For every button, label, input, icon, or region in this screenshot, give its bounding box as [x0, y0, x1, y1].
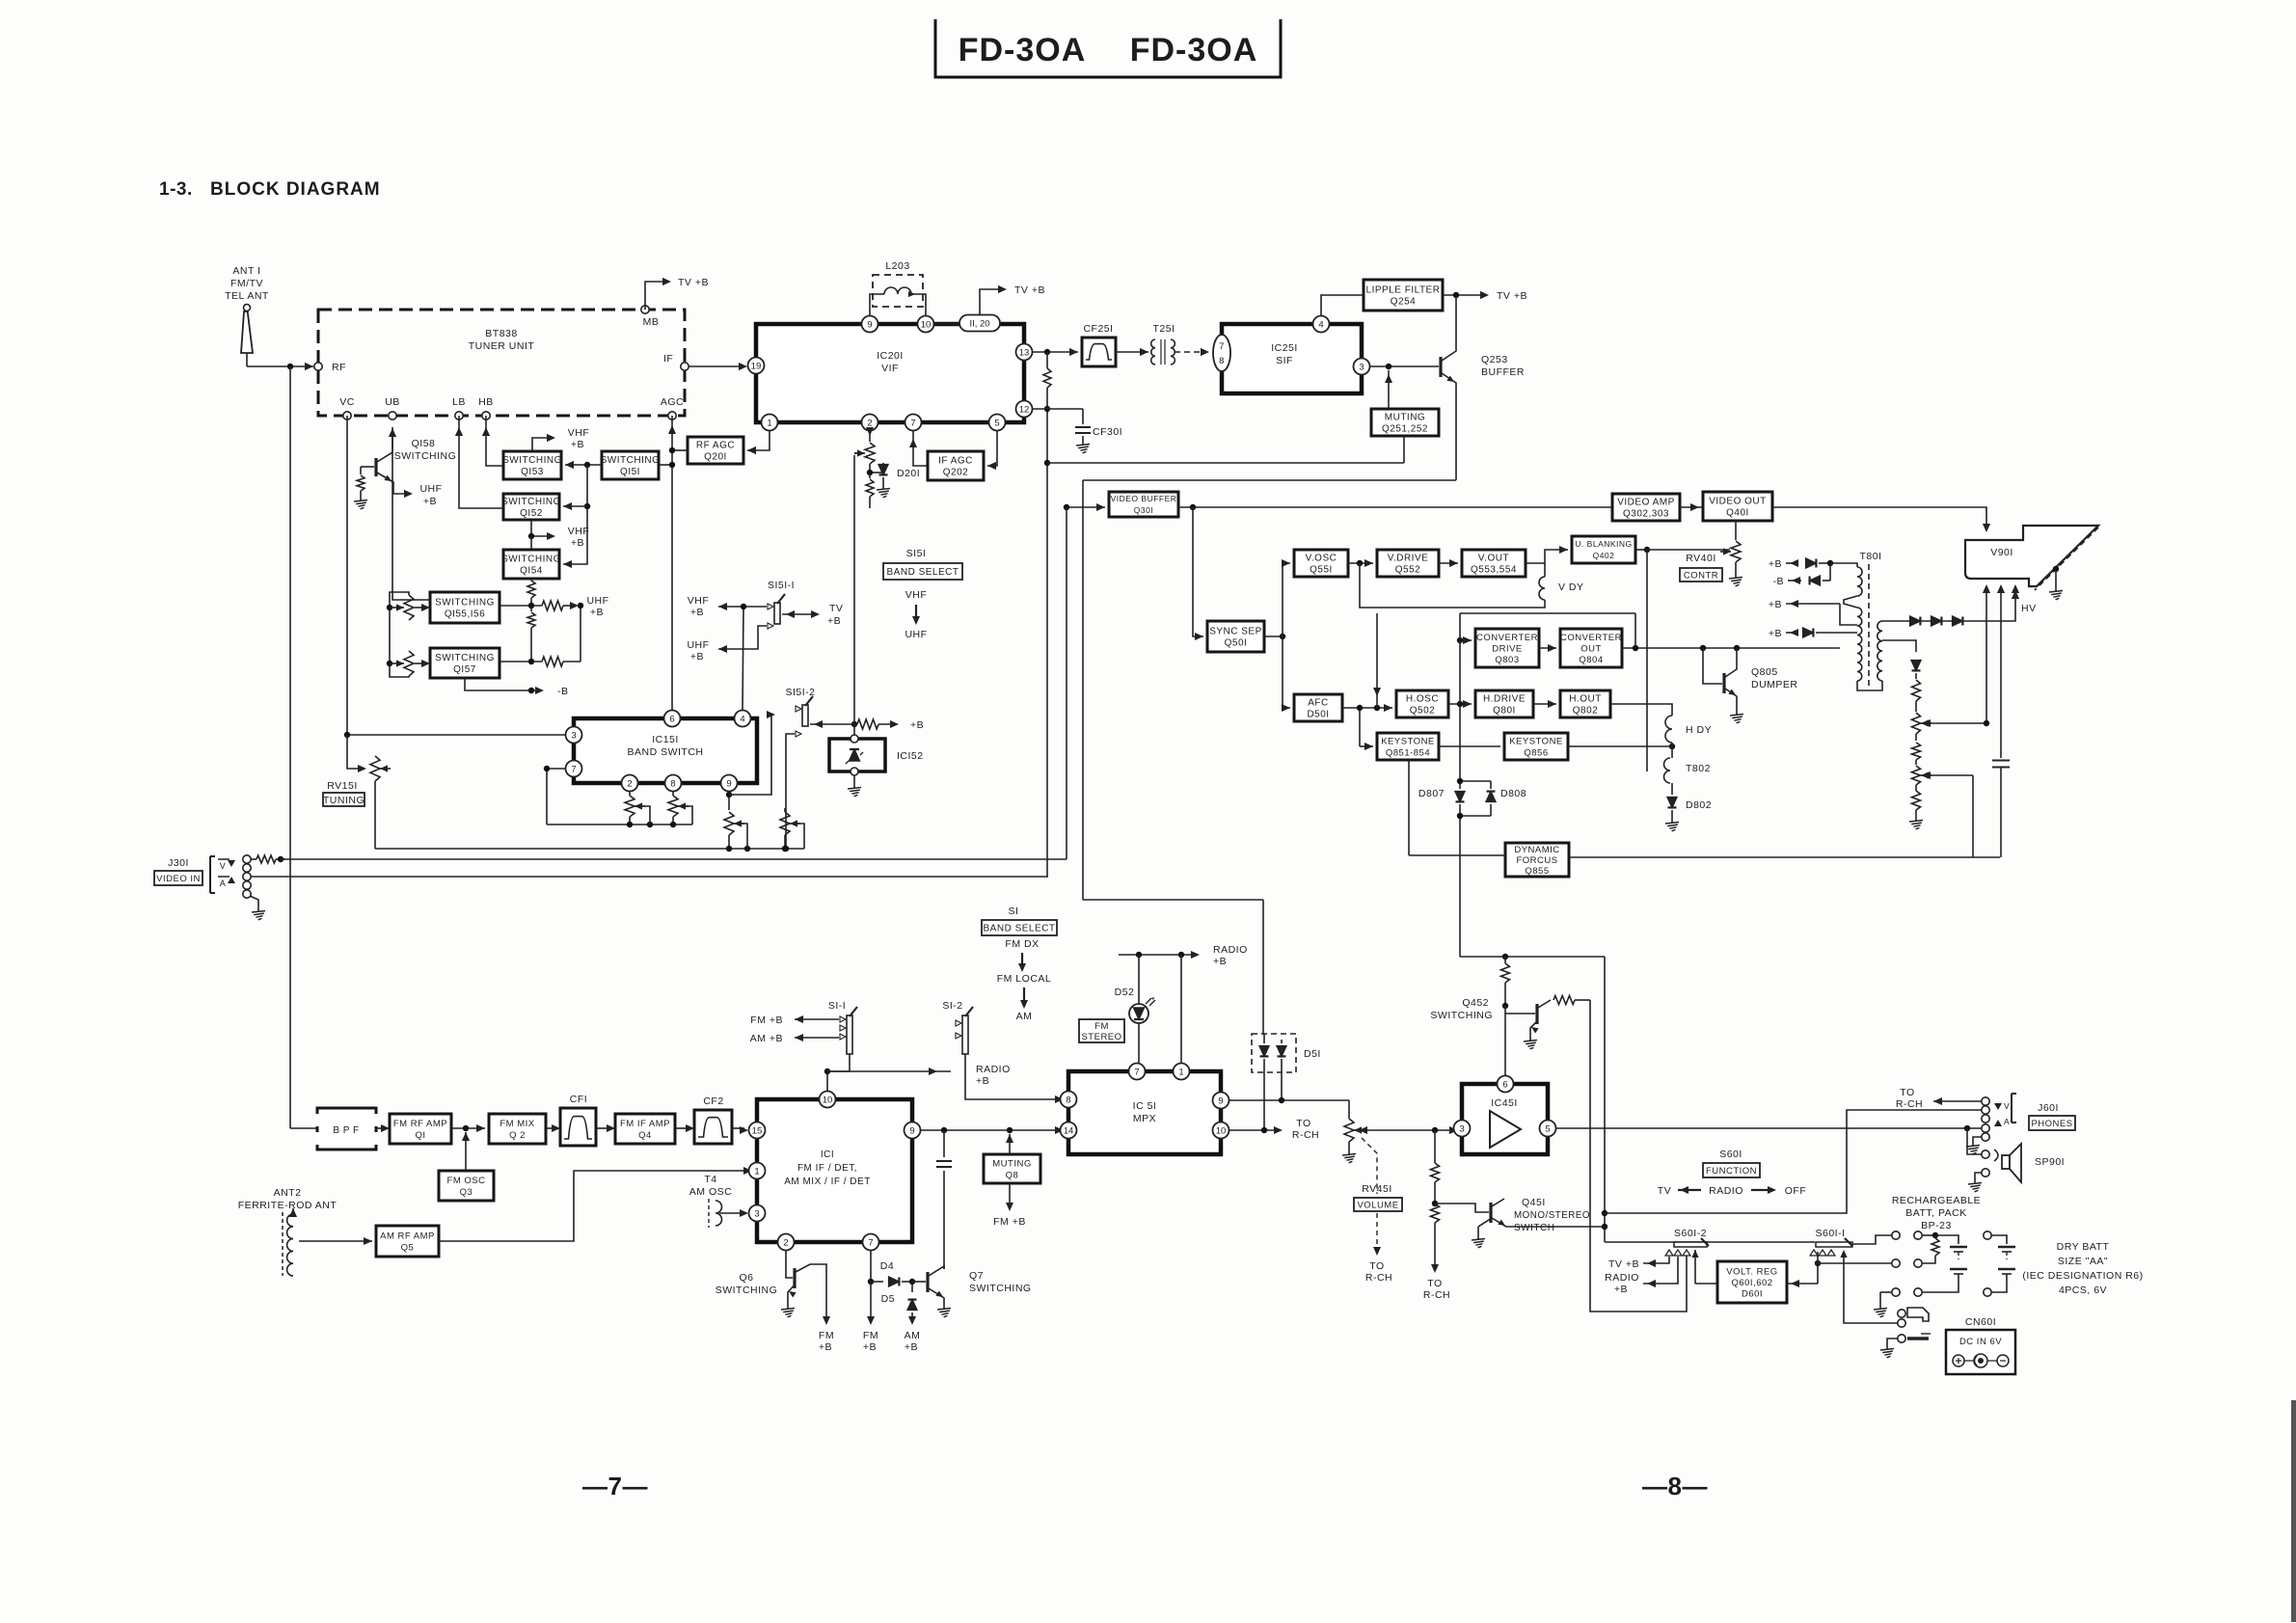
op-amp IC1 box — [757, 1099, 912, 1242]
wire J301 gnd lead — [250, 896, 258, 906]
svg-text:FD-3OA: FD-3OA — [1130, 32, 1258, 68]
ground IC152 — [848, 775, 861, 797]
svg-text:+B: +B — [571, 537, 584, 549]
transistor Q253 buffer — [1370, 295, 1456, 480]
switch S1-2 — [942, 1000, 973, 1054]
speaker SP901 — [1982, 1144, 2065, 1182]
wire pin1 to RFAGC — [747, 431, 770, 454]
diode D808 — [1486, 781, 1526, 816]
svg-text:8: 8 — [670, 778, 675, 789]
svg-text:RADIO: RADIO — [1709, 1185, 1743, 1197]
svg-text:V90I: V90I — [1990, 547, 2013, 558]
svg-text:SWITCHING: SWITCHING — [501, 555, 561, 565]
svg-text:SP90I: SP90I — [2035, 1156, 2065, 1168]
wire DC gnd — [1887, 1339, 1898, 1344]
pot RV401 contrast — [1693, 521, 1741, 573]
svg-text:6: 6 — [1502, 1079, 1507, 1090]
ground D802 — [1665, 818, 1679, 831]
wire video amp to out — [1680, 503, 1703, 511]
wire Q452 node — [1460, 954, 1605, 960]
wire LB to Q152 — [455, 416, 503, 508]
svg-text:FD-3OA: FD-3OA — [959, 32, 1087, 68]
pin IC51-1 — [1174, 1064, 1190, 1080]
svg-text:SWITCHING: SWITCHING — [394, 450, 457, 462]
svg-text:IC20I: IC20I — [877, 350, 904, 362]
svg-text:FM/TV: FM/TV — [230, 278, 263, 289]
wire J301 video up — [1066, 507, 1067, 859]
svg-text:SWITCHING: SWITCHING — [435, 598, 495, 609]
svg-text:SI5I-I: SI5I-I — [768, 580, 795, 591]
pin IC201-5 — [989, 415, 1006, 431]
label FM STEREO box — [1079, 1019, 1124, 1042]
pin MB — [641, 306, 660, 328]
svg-text:DC IN 6V: DC IN 6V — [1959, 1337, 2002, 1347]
svg-text:Q40I: Q40I — [1726, 508, 1749, 519]
label FUNCTION box — [1703, 1163, 1760, 1177]
connector J601 contacts — [1982, 1097, 1989, 1141]
wire 480 run — [1047, 462, 1404, 464]
pin IC201-19 — [748, 358, 765, 374]
wire Q1 to Q2 — [451, 1124, 485, 1132]
wire to V.OSC — [1282, 559, 1290, 636]
pot below IC151 pin2 — [625, 792, 645, 825]
capacitor CF301 — [1075, 409, 1122, 440]
svg-text:Q5: Q5 — [401, 1242, 415, 1253]
wire to S601-1 bar — [1605, 1241, 1815, 1243]
wire S151-2 lower contact — [783, 734, 795, 852]
S1 AM — [1016, 1011, 1033, 1022]
pin IC1-10 — [820, 1092, 836, 1108]
wire to sync sep — [1193, 507, 1203, 640]
CRT V901 — [1965, 526, 2098, 590]
svg-text:7: 7 — [868, 1237, 873, 1248]
svg-text:VIF: VIF — [881, 363, 899, 374]
svg-text:FM +B: FM +B — [750, 1014, 783, 1026]
svg-text:QI52: QI52 — [520, 508, 543, 519]
wire Q152 to Q154 — [530, 536, 532, 550]
box switching Q153 — [502, 451, 562, 479]
svg-text:9: 9 — [726, 778, 731, 789]
resistor HV chain3 — [1912, 785, 1921, 816]
pin IC151-8 — [665, 775, 682, 792]
wire pin5 to IFAGC — [987, 431, 997, 470]
svg-text:+B: +B — [976, 1075, 989, 1087]
box VOLT REG — [1717, 1261, 1787, 1303]
wire Q157 -B — [465, 678, 569, 697]
svg-text:TO: TO — [1900, 1087, 1914, 1098]
wire Q3 to node — [462, 1132, 470, 1171]
resistor +B node — [857, 719, 924, 731]
svg-text:+B: +B — [1614, 1284, 1628, 1295]
wire VHF+B to S151-1 — [718, 603, 767, 610]
battery cell D1 — [1991, 1235, 2015, 1259]
svg-text:3: 3 — [571, 730, 576, 741]
Q7 label — [969, 1270, 1032, 1294]
ground CF301 — [1076, 440, 1090, 453]
pot HV chain1 — [1912, 713, 1990, 734]
svg-text:6: 6 — [669, 714, 674, 724]
battery cell D2 — [1991, 1269, 2015, 1292]
svg-text:FORCUS: FORCUS — [1516, 855, 1557, 866]
wire hosc hdrive — [1448, 700, 1472, 708]
resistor below node13 — [1043, 352, 1051, 878]
svg-text:DRIVE: DRIVE — [1492, 643, 1523, 654]
svg-text:IC45I: IC45I — [1491, 1097, 1518, 1109]
S1 arrow2 — [1020, 987, 1028, 1009]
wire RF AGC to AGC — [668, 425, 688, 453]
battery pack labels — [1892, 1195, 1981, 1231]
wire S1-1 down — [824, 1054, 850, 1091]
box KEYSTONE Q851-854 — [1377, 733, 1439, 760]
svg-text:D52: D52 — [1115, 987, 1135, 998]
wire D52 top — [1138, 955, 1140, 1004]
node UHF+B row — [500, 595, 609, 618]
pin IC51-7 — [1129, 1064, 1146, 1080]
svg-text:SWITCHING: SWITCHING — [501, 497, 561, 507]
svg-text:SWITCHING: SWITCHING — [1430, 1010, 1493, 1021]
pin IC1-1 — [749, 1163, 766, 1179]
svg-text:QI5I: QI5I — [620, 467, 640, 477]
svg-text:Q 2: Q 2 — [509, 1130, 526, 1141]
pin IC201-9 — [862, 316, 878, 333]
svg-text:KEYSTONE: KEYSTONE — [1509, 736, 1563, 746]
antenna ANT1 label — [225, 265, 269, 302]
svg-text:TV +B: TV +B — [1497, 290, 1527, 302]
svg-text:D50I: D50I — [1307, 710, 1329, 720]
ground Q158 — [354, 496, 367, 509]
svg-text:SI5I: SI5I — [906, 548, 927, 559]
S601 TV RADIO OFF — [1658, 1185, 1806, 1197]
node Q157 row — [500, 603, 583, 666]
wire pin9 right — [1229, 1097, 1349, 1103]
svg-text:D60I: D60I — [1742, 1288, 1763, 1299]
transformer T801 label — [1859, 551, 1881, 562]
box MUTING Q8 — [984, 1154, 1040, 1183]
transformer T801 secondary — [1877, 621, 1882, 681]
svg-text:9: 9 — [867, 319, 872, 330]
wire SP901 gnd — [1975, 1173, 1982, 1178]
pin IC151-3 — [566, 727, 582, 744]
ground RV451 — [1342, 1150, 1356, 1163]
svg-text:CFI: CFI — [570, 1094, 587, 1105]
wire muting bottom — [1403, 436, 1405, 463]
box switching Q155 Q156 — [430, 592, 500, 623]
svg-text:TV: TV — [1658, 1185, 1671, 1197]
box FM MIX Q2 — [489, 1114, 546, 1144]
svg-text:S60I: S60I — [1719, 1149, 1742, 1160]
wire audio down2 — [1262, 900, 1264, 1034]
wire lipple TV+B — [1443, 290, 1527, 302]
transformer T801 primary upper — [1857, 567, 1862, 596]
svg-text:V.DRIVE: V.DRIVE — [1388, 554, 1429, 564]
S151 arrow — [912, 605, 920, 625]
DC jack contacts — [1898, 1310, 1905, 1342]
wire pin7 FM+B — [863, 1282, 878, 1353]
wire Q2 to CF1 — [546, 1124, 560, 1132]
svg-text:1: 1 — [754, 1166, 759, 1177]
wire s601-2 to voltreg — [1695, 1283, 1717, 1285]
Q158 label — [394, 438, 457, 462]
svg-text:QI53: QI53 — [521, 467, 544, 477]
svg-text:1: 1 — [1178, 1067, 1183, 1077]
svg-text:J30I: J30I — [168, 857, 189, 869]
wire J601 gnd — [1973, 1137, 1982, 1141]
inductor L203 dashed box — [873, 260, 923, 307]
box V.DRIVE Q552 — [1377, 550, 1439, 577]
pin LB — [452, 396, 466, 419]
box H.OSC Q502 — [1396, 690, 1448, 717]
svg-text:VHF: VHF — [568, 427, 590, 439]
svg-text:V.OSC: V.OSC — [1306, 554, 1337, 564]
svg-text:T4: T4 — [704, 1174, 716, 1185]
wire HDY to T802 — [1671, 743, 1673, 758]
wire audio down — [1082, 480, 1084, 900]
svg-text:UHF: UHF — [419, 483, 442, 495]
S151 UHF — [905, 629, 927, 640]
box FM OSC Q3 — [439, 1171, 494, 1201]
svg-text:Q50I: Q50I — [1225, 638, 1248, 649]
wire S601-1 to battery row1 — [1852, 1235, 1892, 1244]
svg-text:IC15I: IC15I — [652, 734, 679, 745]
svg-text:10: 10 — [1216, 1125, 1227, 1136]
wire conv loop top — [1460, 613, 1635, 648]
antenna ANT2 ferrite rod — [283, 1208, 297, 1276]
wire conv drive in — [1457, 636, 1472, 644]
svg-text:+B: +B — [827, 615, 841, 627]
pin IC1-2 — [778, 1234, 795, 1251]
svg-text:ICI: ICI — [821, 1150, 834, 1160]
filter CF2 — [694, 1096, 732, 1144]
svg-text:FM: FM — [1094, 1021, 1109, 1032]
switch S151-1 — [768, 580, 795, 629]
wire audio elbow — [1083, 899, 1263, 901]
wire pin7 up from IFAGC — [909, 431, 928, 466]
box LIPPLE FILTER Q254 — [1364, 280, 1443, 311]
Q6 FM+B label — [819, 1330, 834, 1353]
+B row3 — [1769, 599, 1857, 625]
svg-text:UB: UB — [385, 396, 400, 408]
svg-text:10: 10 — [823, 1095, 833, 1105]
svg-text:LIPPLE FILTER: LIPPLE FILTER — [1366, 285, 1441, 296]
box RF AGC Q201 — [688, 437, 743, 464]
wire afc hosc — [1342, 704, 1392, 712]
svg-text:L203: L203 — [885, 260, 909, 272]
pin IC51-9 — [1213, 1093, 1229, 1109]
wire ANT2 to Q5 — [299, 1237, 372, 1245]
svg-text:VIDEO BUFFER: VIDEO BUFFER — [1111, 494, 1177, 503]
svg-text:+B: +B — [1213, 956, 1227, 967]
op-amp IC151 BAND SWITCH box — [574, 718, 757, 783]
svg-text:2: 2 — [783, 1237, 788, 1248]
inductor T802 — [1664, 758, 1711, 783]
svg-text:BP-23: BP-23 — [1921, 1220, 1952, 1231]
pin IF — [663, 353, 689, 370]
svg-text:FERRITE-ROD ANT: FERRITE-ROD ANT — [238, 1200, 338, 1211]
svg-text:7: 7 — [910, 418, 915, 428]
S151 VHF — [905, 589, 928, 601]
wire batt row3 gnd — [1880, 1292, 1892, 1304]
svg-text:CONTR: CONTR — [1684, 570, 1718, 581]
antenna ANT2 label — [238, 1187, 338, 1211]
svg-text:(IEC DESIGNATION R6): (IEC DESIGNATION R6) — [2022, 1270, 2143, 1282]
svg-text:TV: TV — [829, 603, 843, 614]
wire S601-1 common to DC — [1844, 1252, 1898, 1323]
label VHF+B left — [688, 595, 710, 618]
svg-text:+B: +B — [819, 1341, 832, 1353]
wire IF to pin19 — [689, 363, 747, 370]
transformer T801 core — [1868, 564, 1870, 687]
ground Q452 — [1524, 1036, 1537, 1049]
box FM RF AMP Q1 — [390, 1114, 451, 1144]
svg-text:T25I: T25I — [1152, 323, 1175, 335]
node Q15x column — [563, 465, 590, 568]
svg-text:MONO/STEREO: MONO/STEREO — [1514, 1210, 1590, 1221]
svg-text:TV +B: TV +B — [678, 277, 709, 288]
wire pot wiper to x886 — [854, 452, 864, 454]
svg-text:A: A — [220, 879, 227, 888]
svg-text:CN60I: CN60I — [1965, 1316, 1996, 1328]
label TUNING box — [323, 793, 365, 806]
inductor V DY — [1539, 563, 1584, 600]
wire 498 run — [1083, 479, 1456, 481]
svg-text:TUNING: TUNING — [323, 795, 365, 806]
wire to phones TO R-CH — [1896, 1087, 1982, 1110]
label VIDEO IN box — [154, 871, 203, 885]
svg-text:Q804: Q804 — [1579, 655, 1603, 665]
svg-text:CONVERTER: CONVERTER — [1476, 633, 1538, 643]
svg-text:+B: +B — [863, 1341, 877, 1353]
svg-text:TO: TO — [1296, 1118, 1310, 1129]
pin HB — [478, 396, 494, 419]
svg-text:VHF: VHF — [905, 589, 928, 601]
svg-text:MB: MB — [643, 316, 660, 328]
+B row4 — [1769, 628, 1857, 639]
svg-text:Q856: Q856 — [1524, 747, 1548, 758]
svg-text:RF AGC: RF AGC — [696, 441, 735, 451]
pin IC451-6 — [1498, 1076, 1514, 1093]
wire VC to RV151 — [347, 735, 366, 772]
svg-text:+B: +B — [590, 607, 604, 618]
svg-text:S60I-2: S60I-2 — [1674, 1228, 1707, 1239]
S1 FM LOCAL — [997, 973, 1052, 985]
wire RV451 to IC451 — [1355, 1126, 1458, 1134]
label S151 BAND SELECT — [883, 563, 962, 580]
resistor HV chain2 — [1912, 734, 1921, 765]
wire IC451 out run — [1556, 1125, 1982, 1131]
heading — [159, 179, 381, 200]
resistor battery — [1922, 1232, 1939, 1263]
wire pin13 right — [1033, 348, 1078, 356]
svg-text:1: 1 — [767, 418, 771, 428]
wire hout to HDY — [1610, 704, 1672, 716]
svg-text:FM OSC: FM OSC — [447, 1176, 486, 1186]
svg-text:TUNER UNIT: TUNER UNIT — [469, 340, 535, 352]
svg-text:SI-2: SI-2 — [942, 1000, 962, 1012]
switch S601 label — [1719, 1149, 1742, 1160]
svg-text:Q855: Q855 — [1525, 866, 1549, 877]
svg-text:Q802: Q802 — [1573, 706, 1598, 717]
J301 contacts — [243, 855, 251, 898]
wire CF2 to IC1 — [732, 1126, 748, 1134]
filter CF1 — [560, 1094, 596, 1146]
box switching Q157 — [430, 648, 500, 678]
wire pin9 to pin14 run — [921, 1126, 1064, 1134]
pin IC51-14 — [1061, 1123, 1077, 1139]
antenna ANT1 symbol — [241, 305, 253, 367]
pin IC251-3 — [1354, 359, 1370, 375]
svg-text:Q6: Q6 — [739, 1272, 753, 1284]
page number 7 — [582, 1472, 648, 1501]
box AM RF AMP Q5 — [376, 1226, 439, 1257]
filter CF251 — [1082, 323, 1116, 366]
dry battery labels — [2022, 1241, 2143, 1296]
wire conv out right — [1622, 645, 1840, 651]
pot RV151 TUNING — [370, 756, 391, 849]
wire Q451 emitter gnd — [1478, 1218, 1492, 1234]
box CONVERTER DRIVE Q803 — [1475, 629, 1539, 667]
svg-text:4PCS, 6V: 4PCS, 6V — [2059, 1285, 2107, 1296]
wire ublanking down — [1646, 550, 1648, 771]
wire pin4 to lipple — [1321, 295, 1364, 315]
wire node down x886 — [853, 455, 855, 739]
svg-text:3: 3 — [1359, 362, 1364, 372]
pin IC451-3 — [1454, 1121, 1471, 1137]
wire ublanking right — [1635, 547, 1693, 553]
svg-text:+B: +B — [1769, 558, 1782, 570]
svg-text:Q20I: Q20I — [704, 452, 727, 463]
svg-text:B P F: B P F — [333, 1125, 359, 1136]
wire FM+B S1-1 — [750, 1014, 839, 1026]
transistor Q451 — [1435, 1199, 1605, 1227]
pin IC151-6 — [664, 711, 681, 727]
svg-text:D4: D4 — [880, 1260, 894, 1272]
svg-text:VIDEO IN: VIDEO IN — [156, 874, 201, 884]
svg-text:19: 19 — [751, 361, 762, 371]
box KEYSTONE Q856 — [1504, 733, 1568, 760]
svg-text:FM DX: FM DX — [1005, 938, 1039, 950]
wire J301 video run — [281, 858, 1067, 860]
ground Q6 — [781, 1304, 795, 1317]
wire BPF to Q1 — [376, 1124, 390, 1132]
pot below IC151 pin8 — [668, 792, 689, 825]
wire audio down right — [1602, 957, 1607, 1242]
box VIDEO BUFFER Q301 — [1109, 492, 1178, 517]
wire pin6 up — [1504, 1006, 1506, 1075]
svg-text:D808: D808 — [1500, 788, 1526, 799]
pot left of Q155 — [393, 595, 430, 620]
svg-text:TV +B: TV +B — [1608, 1258, 1639, 1270]
wire radio+B row — [827, 1064, 1011, 1087]
switch S1 label — [1009, 906, 1019, 917]
ground CN601 — [1880, 1344, 1894, 1358]
svg-text:BAND SWITCH: BAND SWITCH — [628, 746, 704, 758]
svg-text:R-CH: R-CH — [1292, 1129, 1319, 1141]
svg-text:SYNC SEP: SYNC SEP — [1209, 627, 1262, 637]
wire Q4 to CF2 — [675, 1124, 694, 1132]
box switching Q154 — [501, 550, 561, 579]
wire D51 bottoms — [1264, 1072, 1282, 1128]
pin IC1-3 — [749, 1205, 766, 1222]
ground Q805 — [1730, 710, 1743, 723]
S1 arrow1 — [1018, 953, 1026, 972]
wire D52 to pin7 — [1138, 1023, 1140, 1063]
svg-text:UHF: UHF — [905, 629, 927, 640]
svg-text:AGC: AGC — [661, 396, 684, 408]
box VIDEO OUT Q401 — [1703, 492, 1772, 521]
box V.OUT Q553 554 — [1462, 550, 1526, 577]
svg-text:FM LOCAL: FM LOCAL — [997, 973, 1052, 985]
resistor Q452 — [1501, 957, 1510, 1009]
